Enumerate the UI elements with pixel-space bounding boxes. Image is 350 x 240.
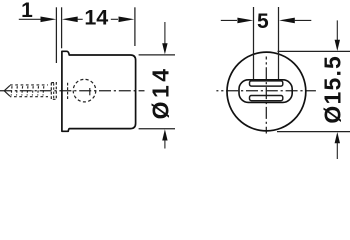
dia15.5: bottom arrow [335, 132, 340, 143]
dia14: bottom extension line [139, 128, 175, 130]
extension line B (right of 1 / left of 14) [61, 7, 63, 48]
dia15.5: top arrow [336, 20, 338, 40]
sleeve outline: flange + body [62, 51, 136, 131]
hidden cross-hole circle [73, 79, 96, 102]
slot bottom bar [250, 96, 283, 101]
dia14: top extension line [139, 54, 175, 56]
dia15.5: top extension line [278, 50, 350, 52]
centerline vertical [265, 57, 267, 134]
dia14: top arrow [164, 22, 166, 44]
svg-text:Ø14: Ø14 [148, 65, 174, 119]
screw threads [10, 85, 48, 97]
slot stadium [239, 80, 292, 103]
dim 5: right arrow [279, 18, 295, 24]
svg-text:1: 1 [21, 0, 33, 22]
svg-text:5: 5 [257, 10, 269, 33]
hidden bore lines [67, 83, 69, 99]
slot top bar [250, 81, 283, 86]
dim 5: left arrow [221, 19, 237, 21]
dia14: bottom arrow [162, 129, 167, 140]
screw head [51, 83, 56, 100]
svg-text:Ø15.5: Ø15.5 [320, 55, 346, 124]
ext line 5 left [253, 7, 255, 79]
extension line C (right of 14) [134, 7, 136, 46]
ext line 5 right [278, 7, 280, 79]
dim 14: left arrow [62, 17, 78, 23]
dia15.5: bottom extension line [277, 131, 350, 133]
centerline left view [0, 90, 145, 92]
centerline horizontal [216, 90, 316, 92]
dim 1: leader + arrow [19, 18, 42, 20]
front circle [227, 52, 306, 131]
extension line A (left of 1) [55, 7, 57, 63]
screw tip [4, 85, 10, 96]
cross-hole center tick [89, 88, 91, 95]
dim 14: right arrow [111, 18, 118, 20]
svg-text:14: 14 [84, 6, 108, 30]
